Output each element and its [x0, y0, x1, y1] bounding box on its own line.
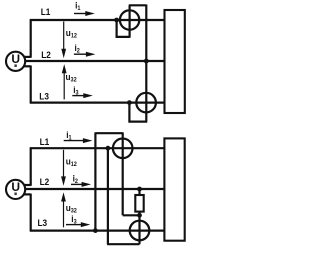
load rectangle (top) [165, 10, 185, 113]
wire: line L1 (top) [30, 19, 165, 21]
wire: source upper stub to bus (bottom) [24, 184, 31, 186]
wire: line L3 (top) [30, 101, 165, 103]
wire: bottom loop horizontal to W3' (bottom) [107, 243, 139, 245]
wire: line L3 (bottom) [30, 230, 165, 232]
voltage source U (top), three-phase generator [6, 52, 25, 71]
current arrow i2 (bottom) [71, 182, 91, 187]
wire: source lower stub to bus (bottom) [24, 193, 31, 195]
wire: resistor bottom lead (bottom) [138, 212, 140, 216]
node below resistor (bottom) [137, 213, 142, 218]
wire: line L1 (bottom) [30, 147, 165, 149]
voltage source U (bottom), three-phase generator [6, 180, 25, 199]
wire: vertical from W1 stub through L2 to W3 (top) [145, 5, 147, 122]
wire: W1 top stub to right vertical (top) [129, 4, 147, 6]
node on L3 feeding W3 voltage path (top) [127, 100, 132, 105]
node on L2 at resistor top (bottom) [137, 187, 142, 192]
load rectangle (bottom) [164, 138, 184, 240]
wire: vertical from W1' stub down to L3 node (bottom) [94, 132, 96, 230]
wattmeter W3' circle (bottom) [130, 221, 150, 241]
node on L3 (bottom) [93, 228, 98, 233]
svg-text:L1: L1 [40, 137, 50, 148]
current arrow i1 (top) [74, 11, 95, 16]
current arrow i3 (top) [72, 93, 93, 98]
wire: W1' bottom connector to resistor node (bottom) [123, 214, 140, 216]
wire: line L2 (bottom) [25, 188, 164, 190]
current arrow i3 (bottom) [66, 222, 90, 227]
svg-text:L3: L3 [38, 217, 48, 228]
node on L2 (top) [144, 59, 149, 64]
wire: source upper stub to bus (top) [24, 56, 31, 58]
wattmeter W3 circle (top) [136, 93, 156, 113]
wire: bus vertical L1-side (top) [30, 19, 32, 58]
node on L1 feeding W1 voltage path (top) [114, 18, 119, 23]
svg-text:L1: L1 [41, 7, 51, 18]
current arrow i1 (bottom) [64, 138, 93, 143]
voltage arrow u12 (bottom), pointing down toward L2 [61, 150, 66, 186]
wire: W3 voltage loop below (top) [129, 103, 147, 122]
wire: W1 voltage loop below (top) [117, 20, 130, 37]
wattmeter W3' vertical (voltage) line (bottom) [138, 215, 140, 244]
wire: resistor top lead (bottom) [138, 189, 140, 195]
wattmeter W1' vertical (voltage) line (bottom) [122, 132, 124, 215]
wire: bus vertical L3-side (bottom) [30, 194, 32, 232]
wire: W1' top stub (bottom) [95, 132, 122, 134]
wire: bus vertical L1-side (bottom) [30, 147, 32, 185]
voltage arrow u12 (top), pointing down toward L2 [61, 22, 66, 59]
wattmeter W1' circle (bottom) [113, 139, 133, 159]
wire: bus vertical L3-side (top) [30, 66, 32, 104]
wire: source lower stub to bus (top) [24, 65, 31, 67]
wattmeter W1 vertical (voltage) line (top) [129, 5, 131, 37]
svg-text:L2: L2 [40, 176, 50, 187]
wire: line L2 (top) [25, 60, 165, 62]
svg-text:L2: L2 [41, 49, 51, 60]
voltage arrow u32 (top), pointing up toward L2 [62, 64, 67, 99]
svg-text:L3: L3 [39, 91, 49, 102]
wire: long vertical from L1 node down to bottom loop (bottom) [107, 148, 109, 244]
svg-text:U: U [11, 180, 20, 194]
current arrow i2 (top) [74, 52, 96, 57]
voltage arrow u32 (bottom), pointing up toward L2 [61, 192, 66, 227]
wattmeter W1 circle (top) [120, 10, 139, 29]
svg-text:U: U [11, 52, 20, 66]
resistor R (artificial star point) [135, 195, 143, 212]
node on L1 feeding W3' voltage return (bottom) [106, 146, 111, 151]
